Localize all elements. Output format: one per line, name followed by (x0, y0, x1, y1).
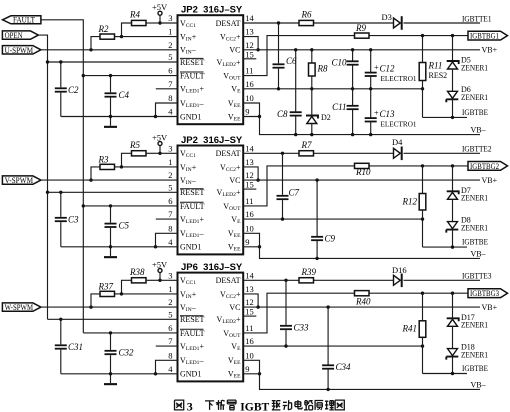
wire VEE pin 10 jog (243, 233, 259, 247)
svg-text:IGBTTE2: IGBTTE2 (462, 145, 492, 154)
capacitor C31 (55, 342, 83, 352)
pin numbers left 3 1 2 5 6 7 8 4 (168, 270, 173, 374)
diode D4 (392, 137, 403, 160)
resistor R41 (402, 321, 426, 338)
svg-text:8: 8 (168, 93, 172, 103)
junction C9 taps (315, 178, 318, 260)
svg-text:11: 11 (245, 196, 253, 206)
junction R37 tap (89, 305, 92, 308)
svg-text:C11: C11 (332, 102, 346, 112)
svg-text:5: 5 (168, 309, 172, 319)
wire FAULT row pin 6 (83, 75, 177, 77)
wire R3 right lead (115, 166, 122, 168)
wire FAULT net rail (41, 20, 83, 333)
wire C7 leads (282, 153, 284, 219)
junction gate row (421, 34, 454, 37)
caption 图3 下桥臂 IGBT 驱动电路原理图 (175, 399, 345, 412)
svg-text:7: 7 (168, 336, 172, 346)
wire VOUT gate row (243, 36, 468, 76)
svg-text:13: 13 (245, 284, 254, 294)
junction C5 tap (109, 204, 112, 207)
resistor R8 (309, 63, 328, 76)
svg-text:ZENER1: ZENER1 (461, 223, 488, 232)
svg-text:14: 14 (245, 13, 254, 23)
junction DESAT blanking cap (284, 279, 287, 282)
junction GND row (109, 115, 157, 118)
resistor R12 (402, 194, 426, 211)
svg-text:10: 10 (245, 350, 254, 360)
capacitor C3 (55, 215, 79, 225)
svg-text:V-SPWM: V-SPWM (5, 175, 34, 185)
wire R37 right lead (115, 293, 122, 295)
svg-text:U-SPWM: U-SPWM (5, 45, 34, 55)
resistor R10 (355, 163, 371, 177)
wire zener column (452, 166, 454, 247)
wire C3 leads (60, 192, 62, 247)
wire DESAT row (243, 279, 480, 281)
port IGBTBG1 (468, 31, 508, 40)
wire IGBTBE line (423, 246, 468, 248)
svg-text:2: 2 (168, 40, 172, 50)
svg-text:9: 9 (245, 107, 249, 117)
wire C10 leads (352, 50, 354, 89)
wire RESET row pin 5 (48, 318, 178, 320)
wire U-SPWM to V_IN- pin 2 (41, 49, 178, 51)
wire C4 leads (110, 76, 112, 117)
zener diode D2 (306, 116, 318, 124)
svg-text:ELECTRO1: ELECTRO1 (381, 75, 417, 83)
svg-text:R10: R10 (355, 167, 371, 177)
svg-text:IGBTBE: IGBTBE (462, 238, 488, 247)
junction pin13 VC (256, 48, 259, 51)
resistor R38 (129, 267, 146, 283)
wire C33 leads (285, 280, 287, 346)
IC JP2 316J-SY gate driver box (178, 146, 244, 255)
junction C3 tap (59, 191, 62, 194)
pin numbers left 3 1 2 5 6 7 8 4 (168, 143, 173, 247)
resistor R3 (98, 154, 115, 169)
wire V_IN+ row to pin 1 (122, 293, 178, 295)
svg-text:R2: R2 (98, 24, 109, 34)
port OPEN (2, 31, 38, 40)
wire C5 leads (110, 206, 112, 247)
capacitor C10 (331, 58, 358, 68)
svg-text:12: 12 (245, 297, 254, 307)
wire VOUT gate row (243, 166, 468, 206)
svg-text:R41: R41 (402, 324, 418, 334)
ground (104, 374, 117, 385)
svg-text:13: 13 (245, 157, 254, 167)
svg-text:12: 12 (245, 40, 254, 50)
junction C32 tap (109, 331, 112, 334)
svg-text:IGBT: IGBT (240, 401, 269, 412)
svg-text:C34: C34 (336, 362, 352, 372)
wire V_IN+ row to pin 1 (122, 36, 178, 38)
ground (104, 247, 117, 258)
svg-text:15: 15 (245, 49, 254, 59)
svg-text:C8: C8 (277, 109, 288, 119)
port W-SPWM (2, 302, 41, 312)
svg-text:2: 2 (168, 297, 172, 307)
zener diode D6 (446, 91, 458, 102)
junction R3 tap (89, 178, 92, 181)
port V-SPWM (2, 175, 41, 185)
svg-text:GND1: GND1 (180, 370, 201, 379)
junction C2 tap (59, 60, 62, 63)
svg-text:15: 15 (245, 180, 254, 190)
wire W-SPWM to V_IN- pin 2 (41, 306, 178, 308)
wire VOUT gate row (243, 293, 468, 333)
wire VC VB+ row (243, 49, 480, 51)
wire R12 column (422, 166, 424, 247)
svg-text:16: 16 (245, 209, 254, 219)
power +5V JP6 (152, 259, 168, 280)
svg-text:5: 5 (168, 52, 172, 62)
wire pin 8 to GND (156, 233, 178, 247)
svg-text:R40: R40 (355, 297, 371, 307)
port IGBTBG2 (468, 162, 508, 171)
wire D2 leads (311, 89, 313, 135)
svg-text:8: 8 (168, 350, 172, 360)
wire GND1 row (61, 116, 178, 118)
svg-text:15: 15 (245, 307, 254, 317)
wire Vcc2+ pin 13 jog (243, 294, 258, 307)
svg-text:D16: D16 (392, 265, 407, 275)
svg-text:GND1: GND1 (180, 112, 201, 121)
junction +5V Vcc1 (158, 21, 161, 24)
svg-text:9: 9 (245, 364, 249, 374)
wire C34 column (327, 307, 329, 389)
wire VLED2+ pin 15 stub (243, 315, 256, 317)
wire VEE pin 10 jog (243, 103, 259, 117)
svg-text:7: 7 (168, 79, 172, 89)
IC JP6 316J-SY gate driver box (178, 273, 244, 382)
wire R38 left lead (122, 280, 132, 294)
wire C13 leads (370, 89, 372, 135)
svg-text:2: 2 (168, 170, 172, 180)
junction C8 taps (294, 48, 297, 136)
svg-text:5: 5 (168, 182, 172, 192)
wire GND1 row (61, 373, 178, 375)
svg-text:DESAT: DESAT (216, 149, 241, 158)
junction R8 taps (310, 48, 313, 90)
svg-text:16: 16 (245, 336, 254, 346)
IC JP2 316J-SY gate driver box (178, 15, 244, 124)
svg-text:8: 8 (168, 223, 172, 233)
resistor R5 (129, 140, 146, 156)
junction GND row (109, 245, 157, 248)
svg-text:+5V: +5V (152, 259, 168, 269)
svg-text:C31: C31 (68, 342, 83, 352)
junction pin10 pin9 (258, 372, 261, 375)
junction zener IGBTBE (451, 372, 454, 375)
svg-text:R39: R39 (301, 267, 317, 277)
svg-text:R38: R38 (129, 267, 145, 277)
svg-text:IGBTBG2: IGBTBG2 (470, 162, 499, 171)
wire VEE rail VB- (243, 247, 480, 259)
capacitor C2 (55, 85, 79, 95)
svg-text:FAULT: FAULT (180, 329, 205, 338)
junction C12 taps (369, 48, 372, 90)
svg-text:RESET: RESET (180, 58, 205, 67)
resistor R4 (129, 10, 146, 26)
svg-text:VC: VC (229, 176, 240, 185)
svg-text:VB+: VB+ (482, 176, 498, 185)
wire zener column (452, 36, 454, 118)
junction gate row (421, 292, 454, 295)
svg-text:JP2 316J–SY: JP2 316J–SY (181, 5, 243, 16)
junction +5V Vcc1 (158, 152, 161, 155)
junction VE row (284, 344, 424, 347)
svg-text:R3: R3 (98, 154, 109, 164)
capacitor C7 (277, 188, 300, 201)
svg-text:VB+: VB+ (482, 46, 498, 55)
svg-text:GND1: GND1 (180, 243, 201, 252)
wire IGBTBE line (423, 116, 468, 118)
svg-text:3: 3 (168, 13, 172, 23)
capacitor C11 (332, 102, 358, 112)
wire FAULT row pin 6 (83, 205, 177, 207)
wire C2 leads (60, 62, 62, 117)
svg-text:D4: D4 (392, 137, 403, 147)
capacitor C5 (105, 220, 130, 230)
svg-text:IGBTTE1: IGBTTE1 (462, 14, 492, 23)
diode D16 (392, 265, 407, 287)
svg-text:C9: C9 (325, 234, 336, 244)
svg-text:ZENER1: ZENER1 (461, 194, 488, 203)
power +5V JP2 (152, 2, 168, 23)
svg-text:FAULT: FAULT (180, 202, 205, 211)
svg-text:VB+: VB+ (482, 303, 498, 312)
port U-SPWM (2, 45, 41, 55)
svg-text:JP2 316J–SY: JP2 316J–SY (181, 135, 243, 146)
wire +5V to Vcc1 pin 3 (160, 152, 178, 154)
junction OPEN rail (46, 60, 49, 194)
wire VE row (243, 88, 422, 90)
svg-text:FAULT: FAULT (180, 72, 205, 81)
svg-text:R11: R11 (428, 61, 443, 71)
wire pin 7 stub (156, 218, 178, 220)
zener diode D17 (447, 318, 459, 326)
svg-text:OPEN: OPEN (5, 31, 23, 40)
svg-text:6: 6 (168, 323, 172, 333)
wire RESET row pin 5 (48, 191, 178, 193)
svg-text:IGBTTE3: IGBTTE3 (462, 272, 492, 281)
wire C32 leads (110, 333, 112, 374)
svg-text:R8: R8 (317, 63, 328, 73)
svg-text:JP6 316J–SY: JP6 316J–SY (181, 262, 243, 273)
junction FAULT rail (82, 74, 85, 208)
svg-text:D2: D2 (321, 113, 331, 122)
svg-text:IGBTBG3: IGBTBG3 (470, 289, 499, 298)
pin numbers right 14 13 12 15 11 16 10 9 (245, 13, 254, 117)
svg-text:IGBTBG1: IGBTBG1 (470, 32, 499, 41)
junction C34 taps (326, 305, 329, 391)
junction DESAT blanking cap (277, 21, 280, 24)
wire C31 leads (60, 319, 62, 374)
resistor R7 (299, 140, 314, 156)
svg-text:VB–: VB– (471, 126, 487, 135)
wire GND1 row (61, 246, 178, 248)
zener diode D7 (447, 191, 459, 199)
resistor R40 (355, 291, 371, 307)
svg-text:C7: C7 (289, 188, 300, 198)
svg-text:16: 16 (245, 79, 254, 89)
svg-text:C13: C13 (380, 109, 396, 119)
wire pin 7 stub (156, 345, 178, 347)
capacitor C13 electrolytic (365, 108, 395, 123)
wire VLED2+ pin 15 stub (243, 188, 256, 190)
junction +5V Vcc1 (158, 279, 161, 282)
junction R4 to V_IN+ (120, 35, 123, 38)
svg-text:3: 3 (187, 399, 193, 412)
svg-text:1: 1 (168, 27, 172, 37)
wire zener column (452, 293, 454, 373)
svg-text:IGBTBE: IGBTBE (462, 108, 488, 117)
svg-text:+: + (374, 62, 379, 72)
wire R4 left lead (122, 23, 132, 37)
junction R2 tap (89, 48, 92, 51)
wire C9 column (316, 180, 318, 258)
wire C6 leads (278, 23, 280, 89)
junction C4 tap (109, 74, 112, 77)
resistor R2 (98, 24, 115, 39)
capacitor C8 (277, 109, 302, 119)
svg-text:R4: R4 (129, 10, 140, 20)
svg-text:9: 9 (245, 237, 249, 247)
svg-text:3: 3 (168, 143, 172, 153)
capacitor C6 (273, 56, 298, 69)
wire pin 8 to GND (156, 360, 178, 374)
svg-text:C3: C3 (68, 215, 79, 225)
wire VEE pin 10 jog (243, 360, 259, 374)
svg-text:RESET: RESET (180, 188, 205, 197)
junction pin10 pin9 (258, 245, 261, 248)
svg-text:13: 13 (245, 27, 254, 37)
resistor R9 (355, 23, 370, 38)
wire V_IN+ row to pin 1 (122, 166, 178, 168)
junction zener IGBTBE (451, 116, 454, 119)
port FAULT (3, 16, 41, 25)
svg-text:14: 14 (245, 270, 254, 280)
svg-text:ZENER1: ZENER1 (461, 63, 488, 72)
wire VEE rail VB- (243, 117, 480, 135)
svg-text:11: 11 (245, 323, 253, 333)
svg-text:12: 12 (245, 170, 254, 180)
junction R38 to V_IN+ (120, 292, 123, 295)
wire +5V to Vcc1 pin 3 (160, 279, 178, 281)
svg-text:R5: R5 (129, 140, 140, 150)
svg-text:VC: VC (229, 303, 240, 312)
svg-text:ZENER1: ZENER1 (461, 93, 488, 102)
svg-text:6: 6 (168, 196, 172, 206)
wire R4 right lead (146, 22, 160, 24)
svg-text:10: 10 (245, 223, 254, 233)
svg-text:14: 14 (245, 143, 254, 153)
svg-text:1: 1 (168, 284, 172, 294)
wire RESET row pin 5 (48, 61, 178, 63)
wire VE row (243, 345, 422, 347)
pin numbers left 3 1 2 5 6 7 8 4 (168, 13, 173, 117)
zener diode D5 (447, 61, 459, 69)
wire VE row (243, 218, 422, 220)
svg-text:C32: C32 (119, 348, 135, 358)
junction C31 tap (59, 318, 62, 321)
resistor R11 (419, 61, 447, 81)
power +5V JP2 (152, 132, 168, 153)
wire R41 column (422, 293, 424, 373)
wire C11 leads (352, 89, 354, 135)
svg-text:C33: C33 (294, 323, 310, 333)
svg-text:VB–: VB– (471, 249, 487, 258)
pin numbers right 14 13 12 15 11 16 10 9 (245, 143, 254, 247)
capacitor C34 (322, 362, 351, 372)
junction VE row (281, 217, 424, 220)
svg-text:ZENER1: ZENER1 (461, 321, 488, 330)
svg-text:R9: R9 (355, 23, 366, 33)
svg-text:+5V: +5V (152, 2, 168, 12)
wire VC VB+ row (243, 306, 480, 308)
wire +5V to Vcc1 pin 3 (160, 22, 178, 24)
svg-text:C10: C10 (331, 58, 347, 68)
ground (104, 117, 117, 128)
junction gate row (421, 164, 454, 167)
junction pin13 VC (256, 178, 259, 181)
wire VLED2+ pin 15 stub (243, 58, 256, 60)
wire VEE rail VB- (243, 374, 480, 390)
wire R37 left lead (91, 294, 100, 307)
wire FAULT row pin 6 (83, 332, 177, 334)
junction pin10 pin9 (258, 115, 261, 118)
svg-text:+5V: +5V (152, 132, 168, 142)
svg-text:10: 10 (245, 93, 254, 103)
wire C8 column (295, 50, 297, 135)
svg-text:3: 3 (168, 270, 172, 280)
wire R3 left lead (91, 167, 100, 180)
diode D3 (382, 12, 403, 30)
wire Vcc2+ pin 13 jog (243, 167, 258, 180)
svg-text:FAULT: FAULT (13, 16, 35, 25)
junction zener IGBTBE (451, 245, 454, 248)
svg-text:7: 7 (168, 209, 172, 219)
svg-text:R12: R12 (402, 197, 418, 207)
wire Vcc2+ pin 13 jog (243, 37, 258, 50)
wire DESAT row (243, 152, 480, 154)
resistor R39 (299, 267, 316, 283)
wire C12 leads (370, 50, 372, 89)
svg-text:RESET: RESET (180, 315, 205, 324)
svg-text:+: + (374, 108, 379, 118)
svg-text:DESAT: DESAT (216, 19, 241, 28)
svg-text:C12: C12 (380, 63, 396, 73)
svg-text:VB–: VB– (471, 380, 487, 389)
svg-text:R7: R7 (301, 140, 312, 150)
wire R5 right lead (146, 152, 160, 154)
wire DESAT row (243, 22, 480, 24)
port IGBTBG3 (468, 289, 508, 298)
junction R5 to V_IN+ (120, 165, 123, 168)
wire pin 8 to GND (156, 103, 178, 117)
zener diode D18 (446, 349, 458, 360)
capacitor C12 electrolytic (365, 62, 395, 77)
wire V-SPWM to V_IN- pin 2 (41, 179, 178, 181)
junction VE row (277, 87, 424, 90)
wire R2 right lead (115, 36, 122, 38)
svg-text:11: 11 (245, 66, 253, 76)
svg-text:C2: C2 (68, 85, 79, 95)
zener diode D8 (446, 222, 458, 233)
svg-text:IGBTBE: IGBTBE (462, 364, 488, 373)
